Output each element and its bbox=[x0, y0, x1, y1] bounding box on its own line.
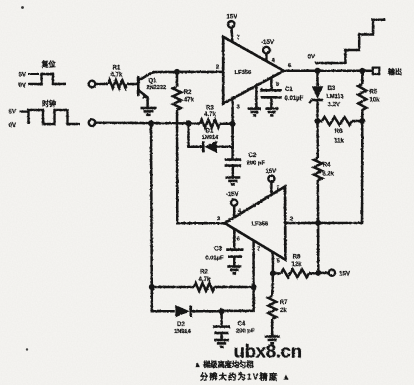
wire bbox=[177, 65, 223, 72]
ground (C4) bbox=[214, 339, 229, 342]
wire bbox=[318, 70, 363, 73]
svg-text:4.7k: 4.7k bbox=[204, 112, 216, 118]
diode D1 bbox=[189, 123, 233, 153]
svg-text:10k: 10k bbox=[370, 98, 381, 104]
ground (C1) bbox=[265, 107, 278, 110]
staircase waveform annotation bbox=[308, 20, 386, 63]
svg-text:1N914: 1N914 bbox=[202, 135, 219, 141]
svg-text:2: 2 bbox=[290, 217, 293, 223]
svg-text:R8: R8 bbox=[293, 255, 301, 261]
resistor R2b bbox=[152, 270, 254, 292]
svg-text:4: 4 bbox=[272, 58, 275, 64]
svg-text:1N914: 1N914 bbox=[174, 329, 191, 335]
svg-text:LF356: LF356 bbox=[252, 221, 270, 227]
resistor R8 bbox=[273, 255, 318, 278]
15V terminal (U2 pin 7) bbox=[265, 169, 279, 195]
svg-text:-15V: -15V bbox=[261, 39, 275, 46]
svg-text:6.2k: 6.2k bbox=[322, 172, 334, 178]
wire bbox=[150, 123, 153, 287]
clock waveform annotation bbox=[9, 99, 80, 129]
wire bbox=[95, 83, 108, 86]
resistor R2 bbox=[173, 72, 194, 110]
transistor Q1 bbox=[138, 73, 166, 107]
wire bbox=[273, 252, 280, 273]
junction bbox=[315, 270, 321, 276]
diode D2 bbox=[174, 305, 221, 335]
svg-text:LM113: LM113 bbox=[327, 94, 344, 100]
svg-text:R2: R2 bbox=[184, 90, 192, 96]
svg-text:0.01µF: 0.01µF bbox=[205, 256, 224, 262]
svg-text:7: 7 bbox=[276, 186, 279, 192]
-15V terminal (U1 pin 4) bbox=[261, 39, 275, 64]
svg-text:12k: 12k bbox=[291, 262, 302, 268]
svg-text:15V: 15V bbox=[226, 14, 238, 21]
svg-text:C2: C2 bbox=[249, 153, 257, 159]
capacitor C2 bbox=[225, 124, 266, 177]
svg-text:时钟: 时钟 bbox=[42, 99, 56, 108]
junction bbox=[148, 120, 154, 126]
wire bbox=[152, 287, 175, 311]
svg-text:R6: R6 bbox=[335, 129, 343, 135]
svg-text:2N2222: 2N2222 bbox=[147, 85, 167, 91]
svg-text:C1: C1 bbox=[285, 87, 293, 93]
clock input terminal bbox=[89, 119, 96, 126]
svg-text:LF356: LF356 bbox=[235, 70, 253, 76]
resistor R6 bbox=[318, 117, 363, 145]
svg-text:47k: 47k bbox=[184, 98, 195, 104]
svg-text:输出: 输出 bbox=[388, 67, 402, 76]
svg-text:分辨大约为1V精度 ▲: 分辨大约为1V精度 ▲ bbox=[200, 371, 291, 381]
svg-text:0V: 0V bbox=[9, 123, 16, 129]
junction bbox=[219, 308, 225, 314]
svg-text:200 pF: 200 pF bbox=[247, 161, 266, 167]
wire bbox=[95, 121, 200, 124]
svg-text:R2: R2 bbox=[200, 270, 208, 276]
svg-text:8: 8 bbox=[276, 82, 279, 88]
node (comparator summing point) bbox=[174, 69, 180, 75]
svg-text:R5: R5 bbox=[370, 90, 378, 96]
svg-text:15V: 15V bbox=[339, 271, 351, 278]
wire (U1 pin 5) bbox=[256, 85, 262, 108]
junction bbox=[251, 284, 257, 290]
resistor R3 bbox=[200, 106, 220, 128]
capacitor C4 bbox=[213, 311, 255, 339]
wire bbox=[222, 287, 254, 311]
junction bbox=[315, 220, 321, 226]
svg-text:C4: C4 bbox=[238, 322, 246, 328]
svg-text:6: 6 bbox=[237, 237, 240, 243]
svg-text:R3: R3 bbox=[206, 106, 214, 112]
wire bbox=[285, 121, 362, 223]
svg-text:R4: R4 bbox=[323, 163, 331, 169]
svg-text:R1: R1 bbox=[113, 66, 121, 72]
resistor R5 bbox=[358, 71, 380, 121]
resistor R7 bbox=[268, 273, 288, 336]
wire bbox=[362, 70, 372, 73]
svg-text:7: 7 bbox=[257, 247, 260, 253]
junction bbox=[186, 120, 192, 126]
wire bbox=[254, 241, 261, 287]
svg-text:D3: D3 bbox=[328, 86, 336, 92]
output terminal bbox=[373, 67, 402, 76]
reset waveform annotation bbox=[19, 60, 66, 90]
junction bbox=[359, 118, 365, 124]
junction bbox=[359, 68, 365, 74]
svg-text:0.01µF: 0.01µF bbox=[285, 96, 304, 102]
capacitor C1 bbox=[261, 78, 304, 108]
junction bbox=[230, 121, 236, 127]
ground (R7) bbox=[265, 335, 280, 338]
svg-text:5V: 5V bbox=[9, 110, 16, 116]
reset input terminal bbox=[89, 81, 96, 88]
ground (C2) bbox=[225, 176, 240, 179]
svg-text:ubx8.cn: ubx8.cn bbox=[234, 341, 302, 362]
wire bbox=[284, 63, 318, 71]
wire bbox=[317, 223, 320, 273]
15V terminal (right) bbox=[329, 270, 351, 278]
svg-text:0V: 0V bbox=[19, 83, 26, 89]
junction bbox=[270, 270, 276, 276]
svg-text:15V: 15V bbox=[265, 169, 276, 175]
svg-text:复位: 复位 bbox=[41, 60, 56, 69]
svg-text:4: 4 bbox=[238, 209, 241, 215]
svg-text:-15V: -15V bbox=[226, 192, 239, 198]
wire bbox=[220, 122, 233, 125]
svg-text:▲ 梯级高度均匀相: ▲ 梯级高度均匀相 bbox=[194, 360, 253, 369]
svg-text:C3: C3 bbox=[214, 247, 222, 253]
svg-text:11k: 11k bbox=[334, 139, 344, 145]
svg-text:5: 5 bbox=[277, 259, 280, 265]
svg-text:4.7k: 4.7k bbox=[111, 73, 123, 79]
junction bbox=[315, 118, 321, 124]
resistor R4 bbox=[314, 121, 335, 223]
svg-text:R7: R7 bbox=[280, 300, 288, 306]
svg-text:4.7k: 4.7k bbox=[199, 277, 211, 283]
zener diode D3 bbox=[309, 71, 343, 121]
15V terminal (U1 pin 7) bbox=[226, 14, 239, 42]
svg-text:D1: D1 bbox=[206, 129, 214, 135]
svg-text:5V: 5V bbox=[19, 73, 26, 79]
ground (C3) bbox=[227, 265, 241, 268]
op-amp U1 bbox=[223, 37, 284, 104]
junction bbox=[149, 284, 155, 290]
capacitor C3 bbox=[205, 229, 243, 266]
wire bbox=[151, 72, 177, 73]
ground (U1 pin 5) bbox=[248, 107, 261, 110]
wire bbox=[127, 83, 137, 86]
wire bbox=[318, 272, 329, 275]
svg-text:2k: 2k bbox=[280, 308, 287, 314]
wire bbox=[177, 110, 225, 223]
ground (Q1 emitter) bbox=[141, 107, 157, 110]
wire bbox=[233, 99, 241, 124]
resistor R1 bbox=[108, 66, 127, 89]
svg-text:1.2V: 1.2V bbox=[328, 102, 340, 108]
svg-text:Q1: Q1 bbox=[149, 79, 158, 85]
svg-text:0V: 0V bbox=[308, 55, 315, 61]
svg-text:D2: D2 bbox=[177, 322, 185, 328]
svg-text:7: 7 bbox=[237, 35, 240, 41]
-15V terminal (U2 pin 4) bbox=[226, 192, 241, 218]
svg-text:200 pF: 200 pF bbox=[236, 329, 255, 335]
junction bbox=[315, 68, 321, 74]
op-amp U2 bbox=[225, 187, 286, 260]
svg-text:2: 2 bbox=[216, 65, 219, 71]
